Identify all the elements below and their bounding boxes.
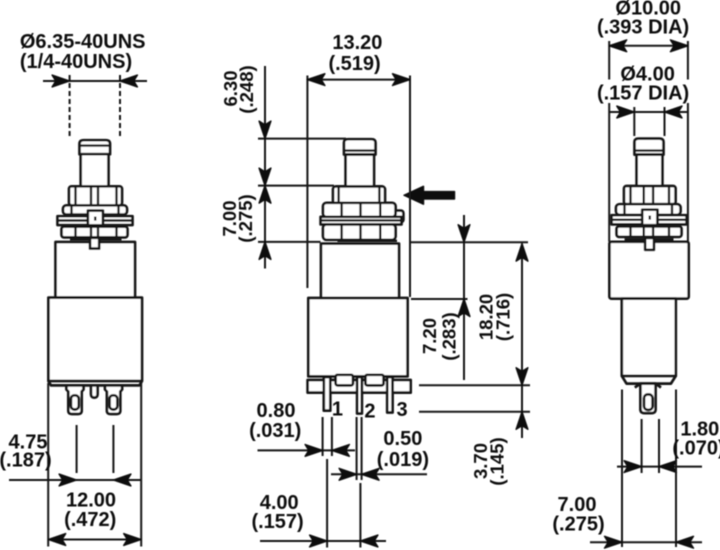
svg-text:7.20: 7.20: [419, 318, 440, 354]
svg-text:0.80: 0.80: [257, 400, 296, 422]
svg-text:(.393 DIA): (.393 DIA): [597, 17, 689, 39]
svg-text:(.716): (.716): [493, 293, 514, 341]
svg-text:(1/4-40UNS): (1/4-40UNS): [20, 51, 132, 73]
svg-text:Ø6.35-40UNS: Ø6.35-40UNS: [20, 31, 146, 53]
svg-text:(.070): (.070): [672, 437, 720, 459]
svg-text:(.248): (.248): [236, 65, 257, 113]
svg-text:(.472): (.472): [64, 509, 116, 531]
svg-text:0.50: 0.50: [383, 428, 422, 450]
svg-text:(.275): (.275): [552, 514, 604, 536]
svg-text:(.275): (.275): [235, 194, 256, 242]
svg-text:(.283): (.283): [439, 312, 460, 360]
svg-text:(.187): (.187): [0, 449, 52, 471]
svg-text:(.031): (.031): [249, 420, 301, 442]
svg-text:(.019): (.019): [377, 449, 429, 471]
svg-text:3: 3: [396, 399, 407, 421]
svg-text:(.157): (.157): [251, 511, 303, 533]
svg-text:1: 1: [332, 399, 343, 421]
svg-text:(.145): (.145): [487, 437, 508, 485]
svg-text:(.157 DIA): (.157 DIA): [597, 83, 689, 105]
svg-text:2: 2: [364, 401, 375, 423]
svg-text:(.519): (.519): [328, 53, 380, 75]
svg-text:13.20: 13.20: [332, 32, 382, 54]
